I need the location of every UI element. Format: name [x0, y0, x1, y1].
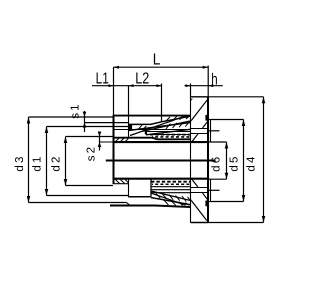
svg-text:L: L — [153, 52, 161, 69]
svg-text:d2: d2 — [50, 154, 62, 171]
svg-text:L2: L2 — [135, 70, 149, 87]
svg-text:d6: d6 — [211, 155, 223, 172]
svg-text:L1: L1 — [96, 70, 109, 87]
svg-text:d5: d5 — [228, 154, 240, 171]
svg-text:s2: s2 — [86, 145, 98, 162]
svg-text:d1: d1 — [32, 154, 44, 171]
svg-text:d4: d4 — [246, 154, 258, 171]
svg-text:h: h — [211, 71, 217, 88]
svg-text:s1: s1 — [69, 102, 81, 119]
svg-text:d3: d3 — [14, 154, 26, 171]
